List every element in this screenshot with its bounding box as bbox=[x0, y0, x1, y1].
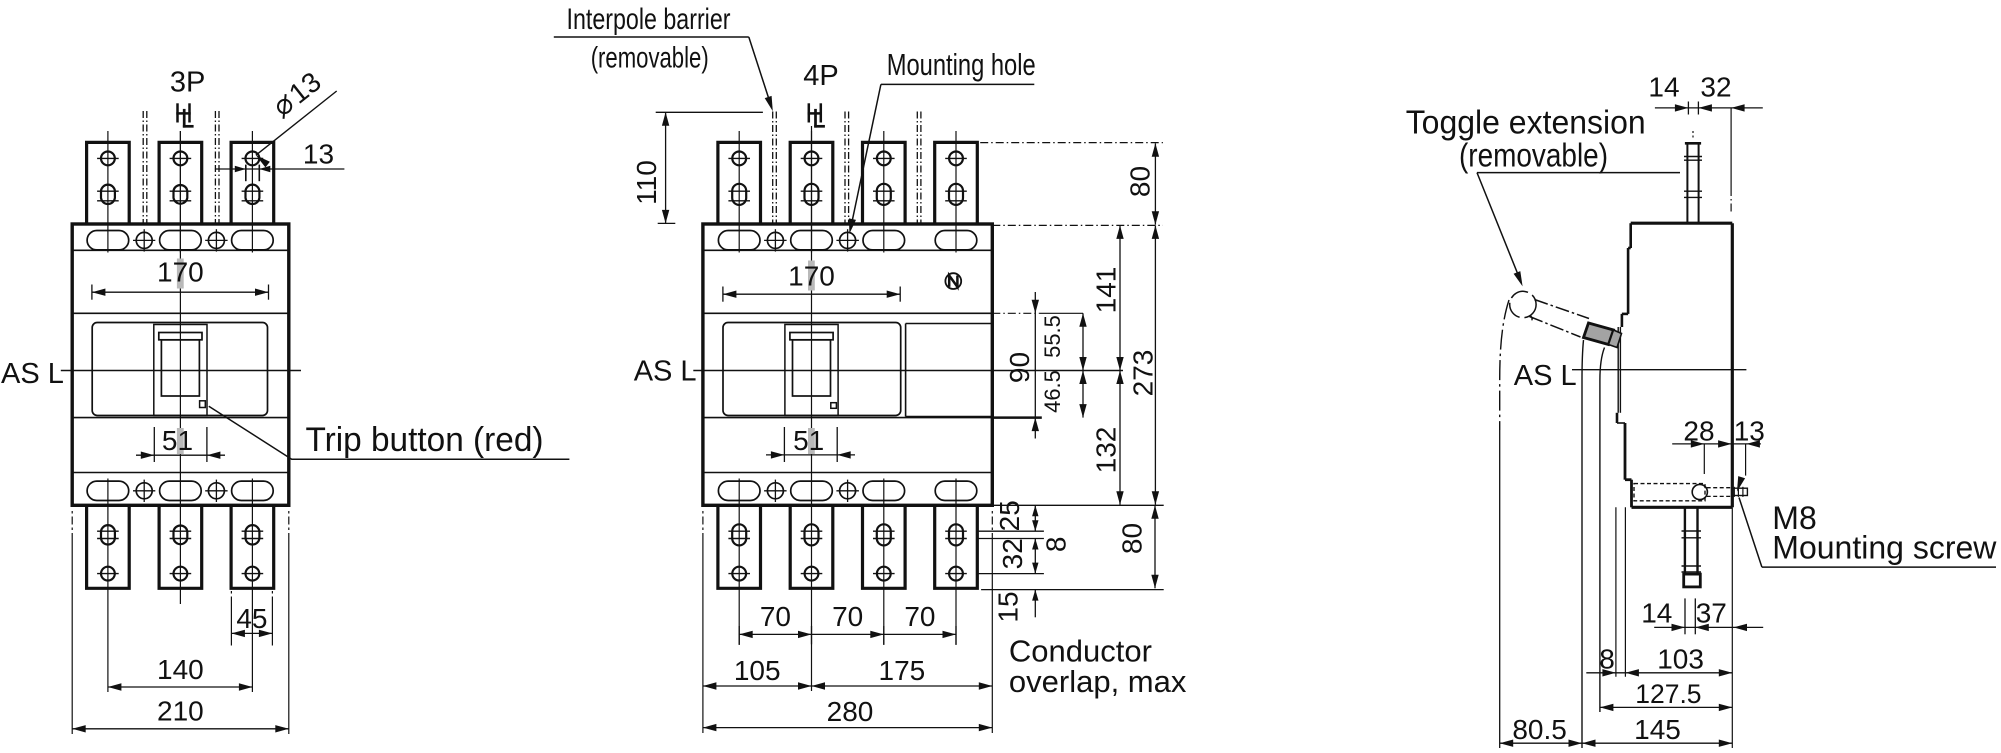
svg-text:145: 145 bbox=[1634, 714, 1681, 745]
svg-text:175: 175 bbox=[879, 655, 926, 686]
svg-text:Mounting hole: Mounting hole bbox=[887, 47, 1036, 82]
svg-text:4P: 4P bbox=[803, 60, 838, 92]
svg-text:127.5: 127.5 bbox=[1635, 679, 1701, 709]
svg-text:80: 80 bbox=[1117, 523, 1148, 554]
svg-text:13: 13 bbox=[303, 139, 334, 170]
svg-text:Interpole barrier: Interpole barrier bbox=[567, 3, 731, 36]
svg-text:210: 210 bbox=[157, 696, 204, 727]
svg-text:141: 141 bbox=[1091, 267, 1122, 314]
svg-text:45: 45 bbox=[236, 603, 267, 634]
svg-text:8: 8 bbox=[1041, 537, 1072, 553]
svg-text:15: 15 bbox=[993, 591, 1024, 622]
svg-text:46.5: 46.5 bbox=[1040, 370, 1065, 413]
svg-text:28: 28 bbox=[1683, 416, 1714, 447]
svg-text:32: 32 bbox=[1700, 72, 1731, 103]
svg-text:32: 32 bbox=[997, 538, 1028, 569]
svg-text:70: 70 bbox=[832, 601, 863, 632]
svg-text:Toggle extension: Toggle extension bbox=[1406, 103, 1646, 140]
svg-text:37: 37 bbox=[1696, 597, 1727, 628]
svg-text:90: 90 bbox=[1004, 352, 1035, 383]
svg-text:(removable): (removable) bbox=[1459, 136, 1608, 173]
svg-text:AS L: AS L bbox=[634, 355, 697, 387]
svg-text:AS L: AS L bbox=[1, 358, 64, 390]
svg-text:25: 25 bbox=[994, 500, 1025, 531]
svg-text:170: 170 bbox=[788, 261, 835, 292]
svg-text:70: 70 bbox=[904, 601, 935, 632]
svg-text:80.5: 80.5 bbox=[1512, 714, 1567, 745]
svg-text:14: 14 bbox=[1641, 597, 1672, 628]
svg-text:105: 105 bbox=[734, 655, 781, 686]
svg-text:Mounting screw: Mounting screw bbox=[1772, 530, 1997, 566]
svg-text:Trip button (red): Trip button (red) bbox=[306, 421, 544, 459]
svg-text:51: 51 bbox=[793, 425, 824, 456]
svg-text:13: 13 bbox=[1734, 416, 1765, 447]
svg-text:80: 80 bbox=[1125, 166, 1156, 197]
svg-text:273: 273 bbox=[1128, 350, 1159, 397]
svg-text:55.5: 55.5 bbox=[1040, 315, 1065, 358]
svg-text:3P: 3P bbox=[170, 67, 205, 99]
svg-text:140: 140 bbox=[157, 654, 204, 685]
svg-text:14: 14 bbox=[1648, 72, 1679, 103]
svg-text:51: 51 bbox=[162, 425, 193, 456]
svg-text:103: 103 bbox=[1657, 644, 1704, 675]
svg-text:110: 110 bbox=[631, 160, 662, 205]
svg-text:170: 170 bbox=[157, 257, 204, 288]
svg-text:280: 280 bbox=[827, 696, 874, 727]
svg-text:(removable): (removable) bbox=[591, 42, 709, 75]
svg-text:132: 132 bbox=[1091, 427, 1122, 474]
svg-text:AS L: AS L bbox=[1514, 360, 1577, 392]
svg-text:8: 8 bbox=[1599, 644, 1615, 675]
svg-text:overlap, max: overlap, max bbox=[1009, 664, 1187, 699]
svg-text:70: 70 bbox=[760, 601, 791, 632]
